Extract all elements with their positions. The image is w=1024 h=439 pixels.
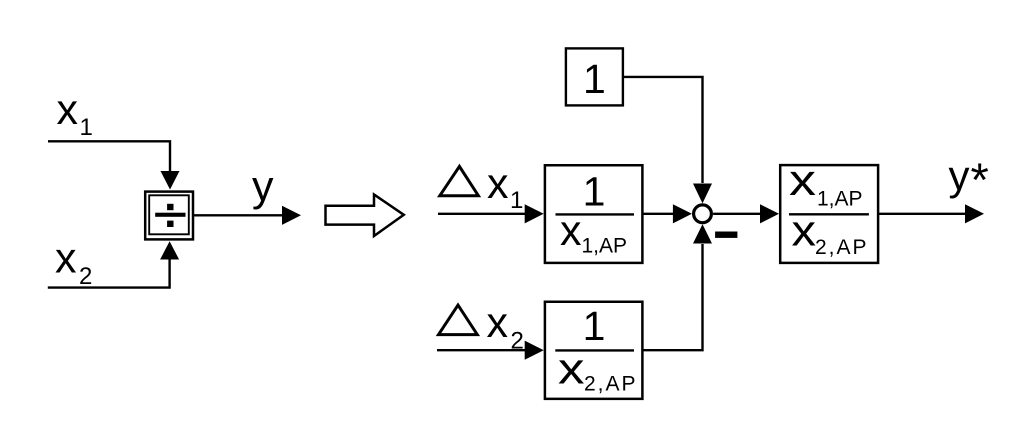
divider block D1 [145,192,193,240]
svg-text:2: 2 [79,263,92,290]
label delta x1 [440,160,524,214]
arrowhead into divider top [161,171,180,190]
svg-text:x: x [55,234,77,282]
svg-text:1: 1 [80,114,93,141]
wire block3 to summing junction [644,244,703,350]
svg-text:x: x [57,86,79,134]
wire x2 input [48,257,170,288]
wire from constant box to summing junction [624,77,703,183]
summing junction [694,205,712,223]
label x2 [55,234,92,290]
label x1 [57,86,93,141]
svg-text:x: x [560,207,582,255]
arrowhead into block3 [525,341,544,360]
svg-text:x: x [487,160,509,208]
label y* [949,152,989,206]
wire block1 to summing junction [644,213,676,215]
svg-text:x: x [558,345,585,394]
arrowhead into block1 [525,204,544,223]
svg-text:x: x [487,299,509,347]
svg-text:1: 1 [583,56,606,102]
arrowhead into summing junction bottom [693,224,712,243]
wire y* output [879,213,966,215]
svg-text:2,AP: 2,AP [815,236,869,259]
arrowhead into block2 [760,204,779,223]
arrowhead into divider bottom [160,241,179,259]
svg-text:2,AP: 2,AP [584,372,638,395]
svg-text:1,AP: 1,AP [817,187,863,210]
divide symbol [155,204,185,227]
constant box 1 [566,48,623,105]
wire summing junction to block2 [713,213,761,215]
svg-text:x: x [792,207,817,256]
arrowhead into summing junction left [673,204,692,223]
svg-text:x: x [789,156,816,205]
arrowhead y output [282,206,301,225]
svg-text:1,AP: 1,AP [582,234,628,257]
block B1 1/x1AP [545,165,643,263]
svg-text:*: * [971,153,989,206]
arrowhead into summing junction top [693,184,712,204]
implies arrow [326,195,404,237]
svg-text:1: 1 [583,303,606,349]
wire x1 input [48,141,170,172]
svg-text:y: y [949,152,970,199]
label delta x2 [439,299,524,355]
wire delta x1 into block1 [438,213,526,215]
arrowhead y* output [965,204,984,223]
block B3 1/x2AP [545,302,643,399]
wire delta x2 into block3 [437,349,528,351]
minus sign [715,232,737,238]
svg-text:1: 1 [583,168,606,214]
svg-text:y: y [252,163,274,211]
svg-text:1: 1 [510,187,523,214]
block B2 x1AP/x2AP [780,156,878,263]
wire y output [194,214,283,216]
